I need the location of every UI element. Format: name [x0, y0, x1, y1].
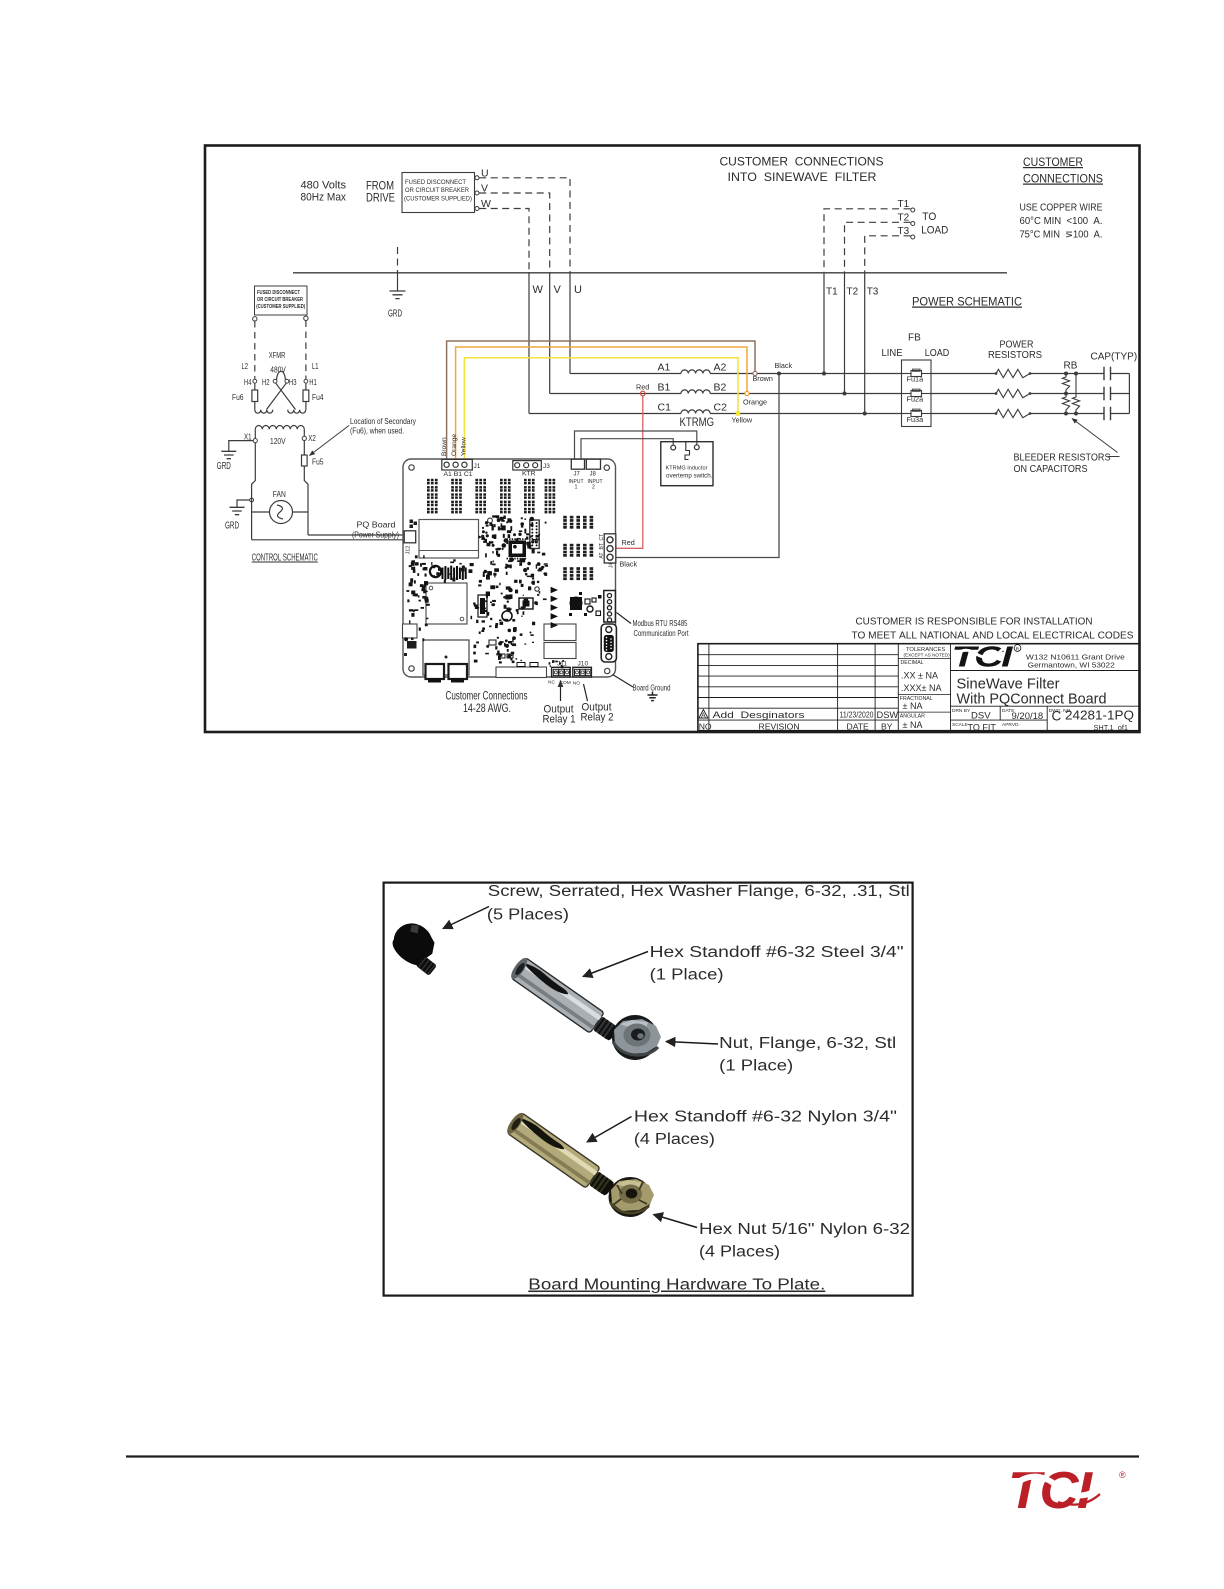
- node RB junction: [1064, 412, 1068, 416]
- svg-text:BY: BY: [881, 722, 893, 732]
- ground symbol (X1): [221, 451, 236, 458]
- svg-text:REVISION: REVISION: [759, 722, 800, 732]
- node red terminal: [641, 391, 646, 396]
- svg-text:H3: H3: [289, 378, 297, 387]
- fuse Fu5: [302, 455, 308, 466]
- coil bars: [442, 566, 467, 580]
- small dark part: [407, 641, 417, 649]
- svg-text:ANGULAR: ANGULAR: [900, 714, 925, 720]
- svg-text:BT: BT: [599, 543, 605, 549]
- fuse block FB: [902, 360, 932, 427]
- svg-text:CONTROL SCHEMATIC: CONTROL SCHEMATIC: [252, 553, 318, 564]
- component speckles: [406, 515, 534, 663]
- secondary right lead + X2: [304, 429, 308, 535]
- svg-text:A: A: [701, 712, 706, 719]
- fused disconnect box (from drive): [402, 173, 475, 213]
- overtemp switch box: [661, 442, 713, 486]
- svg-text:T1: T1: [898, 199, 910, 210]
- wire T3 dashed: [865, 236, 911, 272]
- wire T2 solid: [844, 272, 846, 394]
- resistor power RA1: [996, 369, 1030, 377]
- revision marker A: [699, 710, 708, 719]
- node RB junction: [1064, 372, 1068, 376]
- svg-text:Relay 2: Relay 2: [581, 712, 614, 724]
- svg-text:T1: T1: [826, 287, 838, 298]
- svg-text:Fu5: Fu5: [312, 458, 324, 467]
- node RB junction: [1074, 412, 1078, 416]
- svg-text:J3: J3: [543, 463, 550, 470]
- svg-text:V: V: [554, 284, 562, 296]
- svg-text:B2: B2: [714, 382, 727, 394]
- xfmr primary winding scallops: [255, 410, 273, 413]
- connector J3 KTR: [513, 461, 542, 470]
- bottom strip: [496, 667, 547, 678]
- leader standoff steel: [583, 952, 648, 977]
- svg-text:KTRMG Inductor: KTRMG Inductor: [666, 466, 708, 472]
- svg-text:Location of Secondary: Location of Secondary: [350, 416, 417, 426]
- PCB board outline: [403, 459, 616, 677]
- control wire lower (to J12): [252, 539, 404, 541]
- svg-text:(Power Supply): (Power Supply): [352, 530, 399, 540]
- IC U1: [509, 541, 527, 558]
- svg-text:DRIVE: DRIVE: [366, 191, 395, 205]
- diode row: [551, 587, 557, 627]
- svg-text:TCI: TCI: [1008, 1462, 1093, 1520]
- fan tap node: [250, 498, 254, 502]
- svg-text:NO: NO: [699, 722, 712, 732]
- svg-text:J1: J1: [474, 463, 481, 470]
- svg-text:J8: J8: [590, 472, 597, 478]
- connector J8: [586, 459, 600, 469]
- terminal W: [475, 207, 479, 211]
- leader screw: [443, 907, 489, 929]
- svg-text:APRVD.: APRVD.: [1002, 722, 1020, 728]
- inductor KTRMG phase C: [681, 410, 710, 414]
- hardware figure frame: [384, 883, 913, 1296]
- svg-text:(1 Place): (1 Place): [650, 967, 724, 984]
- header J5: [530, 520, 539, 549]
- xfmr secondary winding scallops: [255, 426, 304, 430]
- svg-text:FUSED DISCONNECT: FUSED DISCONNECT: [257, 290, 300, 296]
- wire L1 dashed: [305, 321, 307, 379]
- svg-text:Board Mounting Hardware To Pla: Board Mounting Hardware To Plate.: [528, 1277, 825, 1294]
- xfmr crossing leads: [267, 383, 296, 410]
- svg-text:KTRMG: KTRMG: [680, 417, 715, 429]
- revision table columns: [709, 644, 951, 731]
- svg-text:H4: H4: [244, 378, 252, 387]
- connector J12: [404, 531, 416, 543]
- svg-text:Hex Standoff #6-32 Nylon 3/4": Hex Standoff #6-32 Nylon 3/4": [634, 1109, 897, 1126]
- leader bleeder: [1072, 419, 1118, 453]
- svg-text:Black: Black: [620, 560, 638, 569]
- connector J7: [571, 459, 584, 469]
- svg-text:Red: Red: [636, 383, 649, 392]
- svg-text:Nut, Flange, 6-32, Stl: Nut, Flange, 6-32, Stl: [719, 1035, 896, 1052]
- fuse Fu3a: [902, 413, 912, 415]
- pin header grids top: [427, 479, 438, 514]
- svg-text:DSW: DSW: [877, 710, 899, 720]
- node yellow: [736, 411, 740, 415]
- svg-text:Black: Black: [775, 361, 793, 370]
- leader nut flange: [666, 1042, 718, 1045]
- secondary left lead + X1: [252, 429, 256, 540]
- title block: [698, 644, 1140, 731]
- svg-text:(Fu6), when used.: (Fu6), when used.: [350, 426, 404, 436]
- svg-text:USE COPPER WIRE: USE COPPER WIRE: [1020, 203, 1103, 214]
- svg-text:DRN BY: DRN BY: [952, 708, 971, 714]
- svg-text:(1 Place): (1 Place): [719, 1058, 793, 1075]
- inductor component: [430, 566, 441, 577]
- leader hex nut: [654, 1215, 698, 1228]
- screw: [386, 916, 451, 978]
- svg-text:NO: NO: [573, 681, 580, 687]
- hex standoff steel: [508, 956, 621, 1046]
- connector J10: [573, 667, 592, 677]
- revision table rows: [698, 655, 898, 720]
- svg-text:14-28 AWG.: 14-28 AWG.: [463, 701, 511, 715]
- svg-text:OR CIRCUIT BREAKER: OR CIRCUIT BREAKER: [257, 297, 303, 303]
- wire L2 dashed: [254, 321, 256, 379]
- node T1 junction: [822, 372, 826, 376]
- ground symbol GRD: [390, 291, 406, 299]
- mid components: [519, 598, 533, 609]
- svg-text:CUSTOMER: CUSTOMER: [1023, 155, 1083, 169]
- svg-text:(4 Places): (4 Places): [634, 1131, 715, 1148]
- svg-text:SHT.1 of1: SHT.1 of1: [1094, 723, 1129, 732]
- node orange: [745, 391, 749, 395]
- terminal V: [475, 191, 479, 195]
- svg-text:(4 Places): (4 Places): [699, 1244, 780, 1261]
- board hole TL: [409, 465, 414, 470]
- svg-text:T2: T2: [847, 287, 859, 298]
- svg-text:DSV: DSV: [971, 711, 991, 722]
- svg-text:2: 2: [592, 485, 595, 491]
- svg-text:OR CIRCUIT BREAKER: OR CIRCUIT BREAKER: [405, 187, 469, 194]
- svg-text:Germantown, WI 53022: Germantown, WI 53022: [1028, 661, 1115, 670]
- component above J12: [410, 520, 414, 524]
- node RB junction: [1064, 392, 1068, 396]
- svg-text:Relay 1: Relay 1: [543, 714, 576, 726]
- via2: [535, 587, 539, 591]
- relay/transformer block: [419, 520, 479, 559]
- svg-text:A2: A2: [714, 362, 727, 374]
- wire U dashed: [479, 178, 570, 272]
- resistor power RA3: [996, 409, 1030, 417]
- wire W solid below bus: [528, 272, 530, 414]
- node T2 junction: [843, 392, 847, 396]
- svg-text:J4: J4: [609, 563, 615, 569]
- wire T2 dashed: [845, 222, 911, 272]
- via: [488, 518, 493, 523]
- board hole TR: [604, 465, 609, 470]
- svg-text:(5 Places): (5 Places): [487, 907, 569, 924]
- wire V solid below bus: [549, 272, 551, 394]
- pin header grids right: [563, 516, 593, 529]
- arrow output relay 1: [560, 681, 562, 702]
- svg-text:.XX ± NA: .XX ± NA: [901, 671, 938, 681]
- svg-text:C: C: [1052, 709, 1062, 724]
- board hole BR: [605, 668, 610, 673]
- svg-text:C1: C1: [658, 402, 672, 414]
- svg-text:Fu3a: Fu3a: [907, 415, 925, 424]
- wire brown (J1-A phase): [447, 341, 755, 460]
- svg-text:(CUSTOMER SUPPLIED): (CUSTOMER SUPPLIED): [256, 304, 305, 310]
- fan ground wire: [237, 500, 250, 507]
- svg-text:Screw, Serrated, Hex Washer Fl: Screw, Serrated, Hex Washer Flange, 6-32…: [488, 883, 910, 900]
- svg-text:Fu4: Fu4: [312, 393, 324, 402]
- svg-text:(EXCEPT AS NOTED): (EXCEPT AS NOTED): [904, 653, 951, 658]
- svg-text:SineWave Filter: SineWave Filter: [957, 677, 1060, 693]
- wire W dashed: [479, 209, 529, 273]
- capacitor CA: [1104, 367, 1111, 381]
- svg-text:24281-1PQ: 24281-1PQ: [1065, 709, 1134, 723]
- svg-text:A1 B1 C1: A1 B1 C1: [444, 471, 473, 478]
- svg-text:J7: J7: [574, 472, 581, 478]
- wire T1 dashed: [824, 209, 911, 272]
- svg-text:Yellow: Yellow: [732, 416, 753, 425]
- svg-text:AT: AT: [599, 552, 605, 558]
- svg-text:®: ®: [1119, 1470, 1126, 1480]
- svg-text:L2: L2: [242, 362, 249, 371]
- svg-text:CAP(TYP): CAP(TYP): [1091, 352, 1138, 363]
- svg-text:B1: B1: [658, 382, 671, 394]
- switch terminal left: [671, 445, 676, 450]
- ground symbol board: [648, 692, 658, 701]
- svg-text:TO FIT: TO FIT: [968, 722, 997, 732]
- svg-text:1: 1: [575, 485, 578, 491]
- IC module block: [426, 583, 467, 624]
- leader board ground: [613, 675, 634, 688]
- wire V dashed: [479, 193, 550, 272]
- svg-text:W: W: [533, 284, 544, 296]
- svg-text:POWER SCHEMATIC: POWER SCHEMATIC: [912, 295, 1022, 309]
- capacitor CB: [1104, 387, 1111, 401]
- svg-text:CONNECTIONS: CONNECTIONS: [1023, 172, 1103, 186]
- svg-text:R: R: [1016, 646, 1020, 652]
- svg-text:T2: T2: [898, 212, 910, 223]
- svg-text:60°C MIN <100 A.: 60°C MIN <100 A.: [1020, 216, 1103, 227]
- svg-text:480 Volts: 480 Volts: [301, 180, 347, 192]
- X1 ground wire: [229, 441, 253, 452]
- TCI logo (title block): [952, 641, 1021, 673]
- svg-text:T3: T3: [898, 226, 910, 237]
- svg-text:FB: FB: [908, 333, 921, 344]
- svg-text:11/23/2020: 11/23/2020: [840, 710, 874, 719]
- svg-text:75°C MIN ⋝100 A.: 75°C MIN ⋝100 A.: [1020, 230, 1103, 241]
- wire B2: [710, 393, 1129, 395]
- bus wire (horizontal): [293, 272, 1007, 274]
- svg-text:Board Ground: Board Ground: [633, 683, 671, 693]
- inductor KTRMG phase B: [681, 390, 710, 394]
- svg-text:DATE: DATE: [847, 722, 870, 732]
- wire C2: [710, 413, 1129, 415]
- svg-text:FUSED DISCONNECT: FUSED DISCONNECT: [405, 179, 466, 186]
- leader standoff nylon: [587, 1117, 632, 1143]
- svg-text:TO MEET ALL NATIONAL AND LOCAL: TO MEET ALL NATIONAL AND LOCAL ELECTRICA…: [852, 631, 1134, 642]
- svg-text:± NA: ± NA: [903, 701, 923, 711]
- wire J7 outer to switch: [575, 431, 697, 459]
- wire J7 inner to switch: [581, 439, 673, 460]
- svg-text:KTR: KTR: [522, 471, 536, 478]
- svg-text:LOAD: LOAD: [921, 225, 948, 237]
- terminal block body: [423, 640, 469, 675]
- tab feet: [428, 678, 441, 683]
- svg-text:J12: J12: [406, 546, 412, 555]
- resistor power RA2: [996, 389, 1030, 397]
- svg-text:U: U: [574, 284, 582, 296]
- wire A1 (U to inductor): [570, 373, 681, 375]
- terminal tab 1: [426, 664, 445, 679]
- svg-text:PQ Board: PQ Board: [357, 520, 396, 530]
- relay K1: [544, 624, 576, 641]
- svg-text:L1: L1: [312, 362, 319, 371]
- wire A2: [710, 373, 1129, 375]
- svg-text:LOAD: LOAD: [925, 348, 950, 359]
- svg-text:RB: RB: [1064, 361, 1078, 372]
- Modbus header: [604, 591, 616, 623]
- control wire upper (to J12): [308, 534, 404, 536]
- nut flange: [612, 1015, 661, 1060]
- wire B1: [550, 393, 681, 395]
- svg-text:Red: Red: [622, 538, 635, 547]
- svg-text:COM: COM: [560, 680, 571, 686]
- terminal right of disconnect: [304, 316, 308, 320]
- svg-text:BLEEDER RESISTORS: BLEEDER RESISTORS: [1014, 453, 1111, 464]
- svg-text:overtemp switch.: overtemp switch.: [666, 473, 713, 480]
- hex nut nylon: [609, 1177, 655, 1217]
- svg-text:GRD: GRD: [225, 521, 239, 532]
- svg-text:DECIMAL: DECIMAL: [901, 660, 924, 666]
- svg-text:X2: X2: [308, 434, 316, 443]
- switch terminal right: [694, 445, 699, 450]
- svg-text:INTO SINEWAVE FILTER: INTO SINEWAVE FILTER: [728, 170, 877, 184]
- svg-text:RESISTORS: RESISTORS: [988, 350, 1042, 361]
- connector CT BT AT: [604, 534, 616, 563]
- wire C1: [529, 413, 681, 415]
- inductor KTRMG phase A: [681, 370, 710, 374]
- svg-text:Add Desginators: Add Desginators: [713, 710, 805, 720]
- svg-text:Fu1a: Fu1a: [907, 375, 925, 384]
- svg-text:T3: T3: [867, 287, 879, 298]
- connector J1: [442, 459, 473, 470]
- wire black (CT to A phase): [616, 376, 779, 558]
- svg-text:H1: H1: [309, 378, 317, 387]
- xfmr primary arc: [277, 371, 286, 379]
- svg-text:With PQConnect Board: With PQConnect Board: [957, 692, 1107, 708]
- svg-text:Hex Nut 5/16" Nylon 6-32: Hex Nut 5/16" Nylon 6-32: [699, 1221, 910, 1238]
- edge component: [403, 624, 418, 638]
- node brown: [753, 371, 757, 375]
- fuse Fu4: [305, 383, 307, 390]
- svg-text:± NA: ± NA: [903, 720, 923, 730]
- wire red (CT to B phase): [616, 396, 643, 549]
- arrow output relay 2: [584, 684, 588, 701]
- fused disconnect box (control): [255, 286, 308, 315]
- svg-text:GRD: GRD: [388, 309, 402, 320]
- ground symbol (fan): [230, 507, 245, 514]
- node RB junction: [1074, 372, 1078, 376]
- svg-text:Fu2a: Fu2a: [907, 395, 925, 404]
- svg-text:ON CAPACITORS: ON CAPACITORS: [1014, 464, 1088, 475]
- svg-text:Brown: Brown: [441, 437, 448, 456]
- svg-text:GRD: GRD: [217, 461, 231, 472]
- wire U solid below bus: [569, 272, 571, 374]
- svg-text:NC: NC: [548, 680, 555, 686]
- svg-text:POWER: POWER: [1000, 340, 1034, 351]
- svg-text:Brown: Brown: [753, 374, 773, 383]
- svg-text:C2: C2: [714, 402, 728, 414]
- svg-text:CUSTOMER IS RESPONSIBLE FOR IN: CUSTOMER IS RESPONSIBLE FOR INSTALLATION: [856, 617, 1093, 628]
- svg-text:Yellow: Yellow: [461, 437, 468, 456]
- wire T3 solid: [864, 272, 866, 414]
- svg-text:Communication Port: Communication Port: [634, 629, 690, 638]
- wire capacitor return bus: [1128, 374, 1130, 414]
- svg-text:INPUT: INPUT: [588, 479, 603, 485]
- schematic border frame: [205, 146, 1140, 733]
- fuse Fu1a: [902, 373, 912, 375]
- svg-text:CT: CT: [599, 534, 605, 541]
- leader modbus: [617, 613, 632, 624]
- svg-text:LINE: LINE: [882, 348, 903, 359]
- relay K2: [544, 643, 576, 659]
- TCI logo footer: [1006, 1462, 1126, 1520]
- svg-text:SCALE: SCALE: [952, 722, 968, 728]
- svg-text:Hex Standoff #6-32 Steel 3/4": Hex Standoff #6-32 Steel 3/4": [650, 944, 904, 961]
- board hole BL: [409, 666, 414, 671]
- svg-text:TO: TO: [922, 211, 936, 223]
- fuse Fu2a: [902, 393, 912, 395]
- svg-text:J10: J10: [578, 661, 589, 668]
- footer rule: [126, 1455, 1139, 1457]
- svg-text:Modbus RTU RS485: Modbus RTU RS485: [633, 619, 688, 628]
- resistor RB right column: [1072, 374, 1079, 414]
- svg-text:CUSTOMER CONNECTIONS: CUSTOMER CONNECTIONS: [720, 155, 884, 169]
- wire T1 solid: [823, 272, 825, 374]
- connector J11: [552, 667, 571, 677]
- node T3 junction: [863, 412, 867, 416]
- node black: [777, 372, 781, 376]
- svg-text:80Hz Max: 80Hz Max: [301, 192, 347, 204]
- svg-text:120V: 120V: [270, 436, 286, 446]
- DB9 connector: [601, 624, 616, 662]
- svg-text:Fu6: Fu6: [232, 393, 244, 402]
- hex standoff nylon: [504, 1111, 617, 1201]
- svg-text:A1: A1: [658, 362, 671, 374]
- svg-text:.XXX± NA: .XXX± NA: [901, 683, 941, 693]
- component cluster: [570, 597, 582, 610]
- svg-text:Orange: Orange: [743, 398, 767, 407]
- fan symbol: [270, 501, 293, 524]
- terminal tab 2: [449, 664, 468, 679]
- ground stub wire: [397, 247, 399, 273]
- fan wires: [252, 511, 308, 513]
- resistor RB left column: [1062, 374, 1069, 414]
- capacitor CC: [1104, 407, 1111, 421]
- terminal left of disconnect: [253, 317, 257, 321]
- wire orange (J1-B phase): [456, 347, 747, 460]
- svg-text:XFMR: XFMR: [269, 350, 286, 360]
- switch symbol: [685, 442, 690, 460]
- svg-text:(CUSTOMER SUPPLIED): (CUSTOMER SUPPLIED): [404, 195, 472, 202]
- svg-text:FAN: FAN: [273, 489, 286, 499]
- terminal U: [475, 176, 479, 180]
- fuse Fu6: [254, 383, 256, 390]
- svg-text:Orange: Orange: [451, 434, 458, 456]
- svg-text:H2: H2: [262, 378, 270, 387]
- svg-text:9/20/18: 9/20/18: [1012, 711, 1044, 722]
- wire yellow (J1-C phase): [464, 358, 738, 460]
